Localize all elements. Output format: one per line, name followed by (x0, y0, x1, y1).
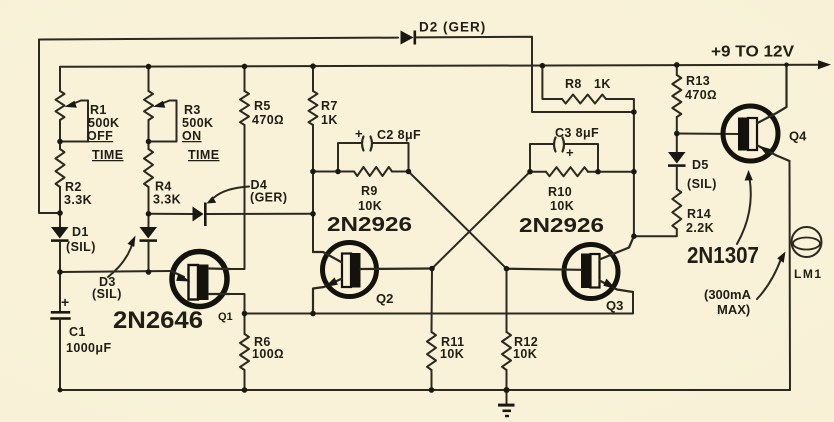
svg-text:10K: 10K (513, 347, 537, 361)
svg-text:10K: 10K (358, 199, 382, 213)
node C2 left (335, 169, 341, 175)
wire common emitter rail (245, 292, 634, 314)
svg-text:3.3K: 3.3K (64, 193, 92, 207)
svg-text:2N1307: 2N1307 (687, 242, 759, 268)
node R7 top (310, 63, 316, 69)
svg-text:R13: R13 (686, 74, 710, 88)
resistor R8 (562, 95, 606, 104)
label C2 (355, 126, 421, 142)
label R12 (513, 335, 538, 361)
wire D3 to emitter line (148, 241, 150, 272)
transistor Q4 2N1307 (723, 65, 790, 161)
svg-text:R4: R4 (155, 180, 172, 194)
svg-text:R5: R5 (254, 99, 271, 113)
node R1 wiper tie (57, 139, 63, 145)
node Q3 collector (631, 233, 637, 239)
node D4 Q2 collector (310, 211, 316, 217)
svg-text:(300mA: (300mA (704, 287, 752, 302)
svg-text:470Ω: 470Ω (685, 88, 717, 102)
wire R13 branch (676, 65, 678, 75)
svg-text:Q2: Q2 (376, 291, 393, 306)
svg-text:Q3: Q3 (606, 298, 623, 313)
label R1 (87, 103, 123, 162)
wire R5 to Q1 base2 (230, 125, 245, 269)
node R3 top (146, 64, 152, 70)
wire R9 right (392, 171, 409, 173)
label C1 (66, 325, 112, 355)
wire Q4 base lead (677, 133, 739, 136)
node R8 top (540, 63, 546, 69)
wire R4 to D3 (148, 187, 150, 227)
svg-text:D2 (GER): D2 (GER) (419, 20, 486, 35)
transistor Q1 unijunction 2N2646 (171, 252, 230, 307)
label D5 (687, 158, 717, 191)
wire R8 left leg (542, 66, 562, 99)
node R9 right (406, 169, 412, 175)
label D1 (66, 225, 96, 254)
node Q2 base (429, 266, 435, 272)
node R13 top (674, 62, 680, 68)
svg-text:R10: R10 (548, 185, 572, 199)
resistor R4 (144, 149, 153, 187)
wire D1 to C1 (59, 241, 61, 311)
wire R9 left (313, 171, 354, 173)
svg-text:3.3K: 3.3K (153, 193, 181, 207)
ground (498, 390, 515, 417)
node R6 bottom (242, 387, 248, 393)
node Q1 base1 (242, 311, 248, 317)
label 300mA MAX (704, 287, 752, 317)
svg-text:2N2926: 2N2926 (327, 214, 412, 236)
label R11 (440, 335, 464, 361)
svg-text:R9: R9 (361, 184, 378, 198)
node C1 bottom (58, 388, 63, 393)
svg-text:500K: 500K (88, 116, 119, 130)
wire Q1 emitter line (60, 271, 171, 272)
node D2 join (631, 109, 637, 115)
node Q3 collector column (631, 169, 637, 175)
svg-text:2N2646: 2N2646 (113, 307, 203, 334)
resistor R3 (144, 91, 153, 120)
resistor R5 (240, 91, 249, 125)
svg-text:2N2926: 2N2926 (519, 215, 604, 237)
label R5 (252, 99, 284, 127)
svg-text:ON: ON (182, 129, 202, 143)
svg-text:R1: R1 (90, 103, 107, 117)
svg-text:+: + (61, 294, 69, 310)
resistor R9 (354, 167, 392, 176)
label D4 (250, 178, 287, 205)
svg-text:R3: R3 (184, 103, 201, 117)
wire R7 to Q2 collector (312, 125, 314, 252)
node rail arrow (818, 60, 831, 69)
node Q3 base (504, 266, 510, 272)
label R10 (548, 185, 574, 213)
wire R10 right to collector column (588, 171, 634, 173)
svg-text:470Ω: 470Ω (252, 113, 284, 127)
svg-text:R14: R14 (687, 207, 711, 221)
wire diagonal R9 to Q3 base (409, 172, 507, 269)
node R1 wiper arm (60, 101, 88, 142)
svg-text:C2 8μF: C2 8μF (377, 128, 421, 142)
svg-text:1000μF: 1000μF (66, 341, 112, 355)
node Q4 base (674, 131, 680, 137)
wire D4 to Q2 collector branch (207, 213, 313, 215)
wire R11 branch (431, 269, 434, 333)
node D3 emitter (146, 269, 152, 275)
resistor R11 (427, 332, 436, 370)
svg-text:R8: R8 (565, 77, 582, 91)
diode D3 (140, 227, 158, 242)
transistor Q3 2N2926 (507, 236, 634, 298)
svg-text:D5: D5 (692, 158, 709, 172)
svg-text:MAX): MAX) (717, 302, 750, 317)
node C3 right (595, 169, 601, 175)
label R9 (358, 184, 382, 213)
wire D4 line (149, 213, 193, 215)
svg-text:+: + (355, 126, 363, 141)
wire R12 to bottom rail (506, 370, 508, 390)
wire bottom rail (60, 389, 790, 391)
svg-text:OFF: OFF (87, 129, 113, 143)
pointer arrow to D4 (207, 187, 250, 204)
wire R6 to bottom rail (244, 370, 246, 390)
diode D2 (401, 31, 417, 45)
svg-text:10K: 10K (440, 347, 464, 361)
resistor R1 (56, 91, 65, 120)
label R2 (64, 180, 92, 207)
svg-text:Q1: Q1 (218, 311, 233, 323)
svg-text:C1: C1 (69, 325, 86, 339)
svg-text:(SIL): (SIL) (66, 240, 96, 254)
svg-text:LM1: LM1 (794, 267, 823, 281)
svg-text:(SIL): (SIL) (687, 177, 717, 191)
wire R3 branch (148, 67, 150, 91)
resistor R12 (502, 332, 511, 370)
resistor R2 (56, 149, 65, 187)
svg-text:100Ω: 100Ω (252, 347, 284, 361)
wire R2 to D1 (59, 187, 61, 227)
diode D1 (51, 227, 69, 242)
node D1 C1 emitter (57, 269, 63, 275)
svg-text:2.2K: 2.2K (686, 221, 714, 235)
svg-text:Q4: Q4 (789, 129, 807, 144)
wire right border lamp branch (789, 161, 792, 390)
node ground junction (504, 387, 510, 393)
node Q2 collector R9 (310, 169, 316, 175)
capacitor C2 (362, 137, 372, 151)
diode D4 (193, 203, 207, 227)
pointer arrow to lamp (757, 252, 786, 300)
wire C3 loop (530, 144, 553, 172)
svg-text:C3 8μF: C3 8μF (555, 126, 599, 140)
wire D5 to R14 (676, 166, 678, 189)
svg-text:+9 TO 12V: +9 TO 12V (711, 44, 794, 61)
label R3 (182, 103, 219, 162)
resistor R7 (309, 91, 318, 125)
svg-text:D1: D1 (72, 225, 89, 239)
pointer arrow to Q4 from 2N1307 (737, 170, 753, 244)
lamp LM1 (792, 227, 822, 257)
label C3 (555, 126, 599, 160)
node R3 wiper arm (149, 101, 177, 142)
wire C2 loop (338, 143, 361, 172)
resistor R6 (240, 334, 249, 370)
label R6 (252, 335, 284, 361)
wire C3 right leg (565, 144, 598, 172)
wire C1 to bottom rail (59, 319, 61, 390)
wire R7 branch (312, 66, 314, 91)
svg-text:(SIL): (SIL) (92, 287, 122, 301)
svg-text:TIME: TIME (188, 148, 219, 162)
svg-text:500K: 500K (182, 116, 213, 130)
wire C2 right leg (373, 143, 409, 172)
wire R1 branch (59, 120, 61, 149)
node R3 wiper tie (146, 139, 152, 145)
resistor R14 (672, 189, 681, 229)
node Q4 collector rail (784, 62, 788, 66)
label R7 (321, 99, 338, 127)
wire diagonal Q2 base to R10 (432, 172, 530, 269)
wire R11 to bottom rail (431, 370, 433, 390)
node R5 top (242, 64, 248, 70)
svg-text:R7: R7 (321, 99, 338, 113)
transistor Q2 2N2926 (313, 243, 432, 314)
wire left border (39, 40, 60, 214)
wire R3 to R4 (148, 120, 150, 149)
wire D2 cathode to Q3 collector node (416, 37, 634, 112)
capacitor C3 (554, 138, 564, 152)
node R11 bottom (429, 387, 435, 393)
wire R5 branch (244, 66, 246, 91)
label R14 (686, 207, 714, 235)
label R13 (685, 74, 717, 102)
svg-text:10K: 10K (550, 199, 574, 213)
diode D5 (668, 152, 686, 167)
pointer arrow to D3 (108, 236, 136, 278)
node R2 D1 (57, 210, 63, 216)
wire Q1 base1 down (230, 294, 245, 334)
svg-text:(GER): (GER) (250, 191, 287, 205)
wire R14 to Q3 collector node (634, 229, 677, 236)
wire R8 right leg / Q3 collector column (606, 99, 634, 236)
svg-text:R2: R2 (65, 180, 82, 194)
node R4 D4 (146, 211, 152, 217)
wire R10 left (530, 171, 546, 173)
wire R13 to D5 (676, 117, 678, 152)
node R10 left (527, 169, 533, 175)
label R8 (565, 77, 611, 91)
resistor R10 (546, 167, 588, 176)
wire top rail D2 feed (39, 38, 398, 40)
node Q2 emitter (310, 311, 316, 317)
label D3 (92, 275, 122, 301)
capacitor C1 (50, 294, 70, 320)
resistor R13 (672, 75, 681, 117)
svg-text:+: + (566, 145, 574, 160)
label R4 (153, 180, 181, 207)
svg-text:1K: 1K (594, 77, 611, 91)
svg-text:TIME: TIME (92, 148, 123, 162)
svg-text:1K: 1K (321, 113, 338, 127)
wire +V main rail (60, 65, 821, 91)
wire R12 branch (506, 269, 508, 332)
